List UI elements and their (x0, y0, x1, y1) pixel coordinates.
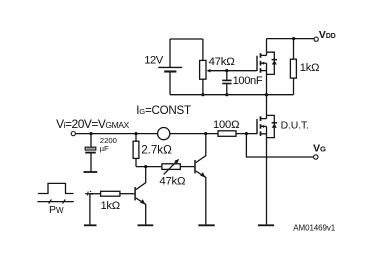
mosfet M1 source stub (261, 70, 267, 72)
mosfet M1 body arrow (261, 62, 264, 65)
mosfet DUT channel dash mid (260, 124, 262, 129)
svg-text:µF: µF (100, 144, 109, 153)
mosfet DUT diode triangle (272, 124, 277, 128)
mosfet DUT source vertical (266, 126, 268, 137)
wire VG branch vertical (246, 134, 313, 157)
mosfet M1 gate bar (256, 56, 258, 71)
capacitor 2200uF lead (90, 134, 92, 148)
mosfet M1 diode triangle (272, 60, 277, 64)
ground T1 emitter (138, 224, 154, 226)
wire 2.7k bottom to VR row (136, 166, 162, 168)
capacitor 100nF plate2 (222, 83, 231, 85)
wire 1k to T1 base (120, 193, 134, 195)
capacitor 100nF top lead (226, 71, 228, 80)
resistor 100ohm body (218, 131, 236, 137)
svg-text:100Ω: 100Ω (213, 119, 239, 131)
node VDD terminal (314, 37, 318, 41)
capacitor 2200uF top plate (85, 147, 96, 150)
mosfet DUT gate bar (256, 119, 258, 134)
capacitor 100nF plate1 (222, 79, 231, 81)
transistor T1 emitter arrow (140, 199, 145, 204)
potentiometer 47k bottom lead (202, 79, 204, 95)
battery 12V short plate (164, 70, 176, 72)
svg-text:1kΩ: 1kΩ (300, 62, 319, 74)
resistor 2.7k lead top (135, 134, 137, 142)
battery 12V negative lead (169, 72, 171, 94)
transistor T2 base bar (194, 160, 196, 173)
mosfet M1 channel dash mid (260, 61, 262, 66)
resistor 1k right bottom lead (293, 78, 295, 95)
potentiometer wiper arrow head (207, 69, 211, 73)
junction at 1k branch (292, 37, 295, 40)
transistor T2 emitter (196, 171, 206, 224)
transistor T1 collector (136, 167, 146, 190)
svg-text:1kΩ: 1kΩ (101, 200, 120, 212)
resistor 1k base body (101, 191, 120, 196)
junction at 2.7k branch (134, 132, 137, 135)
battery 12V long plate (158, 66, 182, 68)
current source IG circle (158, 128, 170, 140)
svg-text:47kΩ: 47kΩ (159, 175, 186, 187)
rheostat 47k body (162, 164, 180, 170)
mosfet DUT channel dash bottom (260, 131, 262, 136)
svg-text:100nF: 100nF (233, 75, 263, 87)
capacitor 100nF bottom lead (226, 84, 228, 95)
wire loop top (170, 38, 203, 40)
mosfet M1 channel dash top (260, 53, 262, 58)
svg-text:47kΩ: 47kΩ (209, 56, 236, 68)
wire pulse terminal to 1k (85, 193, 100, 195)
mosfet DUT diode cathode bar (272, 122, 277, 124)
wire VDD top (267, 38, 315, 40)
transistor T1 base bar (134, 187, 136, 200)
mosfet M1 drain stub (261, 54, 267, 56)
dimension tick right (63, 200, 66, 204)
svg-text:D.U.T.: D.U.T. (281, 120, 309, 131)
battery 12V positive lead (169, 39, 171, 67)
transistor T2 collector (196, 134, 206, 163)
svg-text:VG: VG (313, 143, 326, 154)
transistor T1 emitter (136, 198, 146, 224)
rheostat 47k diagonal arrow (164, 161, 177, 174)
potentiometer 47k body (200, 60, 206, 79)
mosfet DUT body stub (261, 125, 267, 127)
wire VR to T2 base (180, 166, 194, 168)
mosfet M1 channel dash bottom (260, 68, 262, 73)
resistor 2.7k lead bottom (135, 158, 137, 166)
svg-text:IG=CONST: IG=CONST (136, 104, 191, 117)
wire 100ohm to DUT gate (236, 133, 257, 135)
mosfet DUT drain stub (261, 118, 267, 120)
node VG terminal (314, 155, 318, 159)
ground pulse input (84, 224, 97, 226)
svg-text:Vi=20V=VGMAX: Vi=20V=VGMAX (56, 117, 129, 131)
junction at VG branch (245, 132, 248, 135)
junction T1 collector (144, 165, 147, 168)
wire main gate row left (75, 133, 157, 135)
junction rail pot (201, 93, 204, 96)
wire DUT source to ground (266, 138, 268, 225)
junction at 100nF branch (225, 69, 228, 72)
junction rail mosfet column (265, 93, 268, 96)
ground under 2200uF (84, 171, 98, 173)
wire source to 100ohm (170, 133, 218, 135)
junction at 2200uF branch (89, 132, 92, 135)
wire bottom rail (170, 94, 294, 96)
pulse width dimension line (37, 201, 73, 203)
mosfet M1 body stub (261, 62, 267, 64)
mosfet M1 body diode branch (267, 52, 275, 74)
ground DUT source (258, 224, 274, 226)
resistor 2.7kOhm body (133, 141, 139, 158)
potentiometer 47k top lead (202, 39, 204, 60)
node Vi input terminal (71, 132, 75, 136)
wire cap to ground (90, 153, 92, 172)
svg-text:AM01469v1: AM01469v1 (293, 223, 335, 232)
svg-text:PW: PW (49, 204, 64, 216)
wire wiper to gate (210, 70, 257, 72)
capacitor 2200uF bottom plate (85, 152, 96, 154)
junction at T2 collector (204, 132, 207, 135)
wire pulse terminal to ground (89, 194, 91, 225)
ground T2 emitter (198, 224, 214, 226)
resistor 1k right top lead (293, 39, 295, 60)
mosfet DUT source stub (261, 133, 267, 135)
mosfet M1 source vertical (266, 63, 268, 94)
svg-text:2.7kΩ: 2.7kΩ (141, 143, 172, 156)
pulse waveform symbol (38, 183, 74, 193)
junction rail 100nF (225, 93, 228, 96)
mosfet DUT body arrow (261, 125, 264, 128)
dimension tick left (49, 200, 52, 204)
mosfet M1 diode cathode bar (272, 59, 277, 61)
rheostat arrow head (174, 159, 179, 164)
resistor 1kOhm right body (290, 59, 296, 78)
mosfet DUT drain lead (266, 95, 268, 119)
mosfet DUT body diode branch (267, 115, 275, 137)
mosfet DUT channel dash top (260, 116, 262, 121)
mosfet M1 drain lead (266, 39, 268, 56)
svg-text:12V: 12V (144, 55, 163, 67)
node pulse input terminal dotted (87, 191, 92, 196)
transistor T2 emitter arrow (200, 172, 205, 177)
